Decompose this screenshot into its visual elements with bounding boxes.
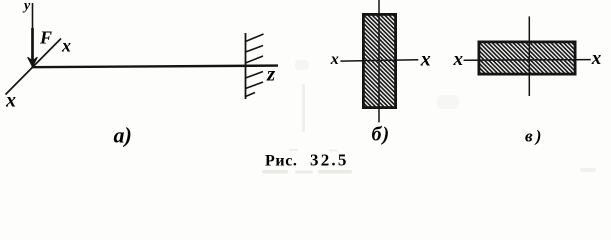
x-axis diagonal: [6, 39, 62, 95]
svg-text:x: x: [453, 49, 464, 70]
svg-text:z: z: [266, 62, 276, 86]
svg-text:32.5: 32.5: [310, 151, 349, 170]
y-axis: [32, 3, 34, 52]
wall: [245, 33, 247, 99]
section b centerline: [378, 0, 380, 122]
section b rectangle: [363, 14, 395, 107]
svg-text:x: x: [591, 48, 602, 69]
svg-text:x: x: [61, 36, 71, 56]
svg-text:F: F: [39, 28, 52, 48]
svg-text:а): а): [114, 123, 132, 148]
scan smudge streak: [262, 60, 596, 174]
svg-text:x: x: [330, 51, 339, 68]
section v centerline: [528, 16, 530, 96]
svg-text:б): б): [372, 124, 391, 146]
svg-text:x: x: [5, 90, 16, 112]
section v x axis: [464, 59, 591, 62]
beam (z-axis): [32, 66, 279, 68]
wall hatch ticks: [246, 34, 264, 97]
svg-text:Рис.: Рис.: [265, 153, 298, 170]
force F arrow: [28, 28, 38, 67]
section v rectangle: [479, 42, 575, 74]
section b x axis: [340, 60, 418, 61]
svg-text:y: y: [22, 0, 31, 14]
svg-text:в): в): [525, 127, 544, 146]
svg-text:x: x: [420, 49, 431, 71]
